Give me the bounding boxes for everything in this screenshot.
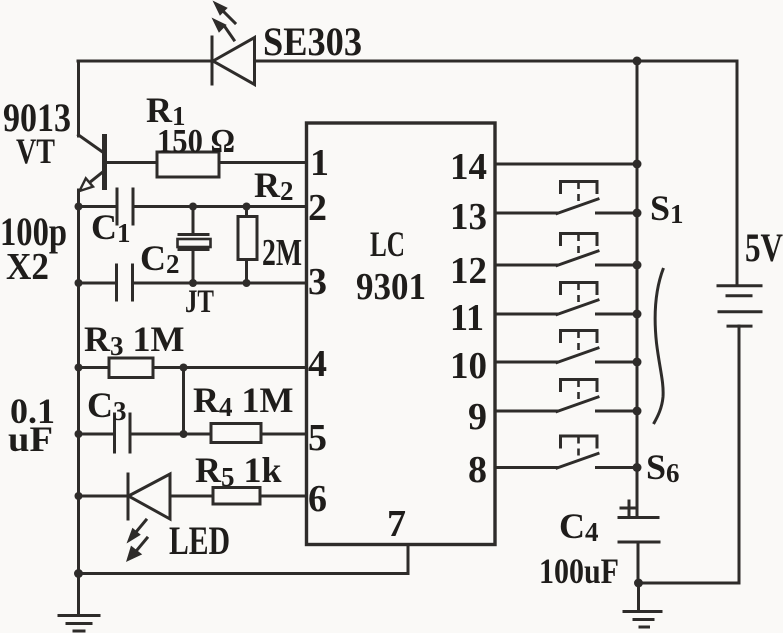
- brace squiggle S1..S6: [654, 268, 664, 424]
- crystal JT: [178, 207, 211, 284]
- svg-text:10: 10: [450, 345, 487, 387]
- node dot left rail pin2 row: [75, 203, 83, 211]
- resistor R2 2M: [238, 207, 257, 284]
- svg-text:VT: VT: [16, 131, 55, 171]
- resistor R3 1M: [78, 358, 307, 378]
- node dot rail S4: [633, 358, 642, 367]
- wire top rail left segment: [78, 60, 212, 63]
- svg-text:9301: 9301: [356, 266, 426, 308]
- svg-text:5V: 5V: [745, 225, 783, 270]
- wire left rail: [77, 190, 80, 574]
- svg-text:uF: uF: [8, 419, 53, 459]
- wire bottom-right to battery return: [639, 326, 740, 583]
- wire top rail right segment: [255, 60, 738, 63]
- svg-text:9: 9: [468, 396, 487, 438]
- resistor R5 1k: [213, 488, 307, 505]
- svg-text:7: 7: [387, 503, 406, 545]
- ground left: [59, 574, 99, 632]
- switch S1 (pin 13): [495, 182, 634, 214]
- node dot crystal top: [189, 203, 197, 211]
- switch S2 (pin 12): [495, 234, 634, 266]
- svg-text:R5 1k: R5 1k: [195, 450, 282, 492]
- svg-text:2: 2: [308, 187, 327, 229]
- resistor R1 150 ohm: [157, 152, 307, 177]
- node dot left rail pin4 row: [75, 364, 83, 372]
- node dot rail pin14: [633, 160, 642, 169]
- switch S3 (pin 11): [495, 283, 634, 315]
- switch S5 (pin 9): [495, 380, 634, 412]
- svg-text:SE303: SE303: [263, 19, 362, 64]
- capacitor C4 100uF electrolytic: [619, 501, 659, 583]
- node dot left rail pin3 row: [75, 279, 83, 287]
- node dot rail S3: [633, 310, 642, 319]
- node dot rail top: [633, 57, 642, 66]
- capacitor C3: [78, 414, 211, 452]
- capacitor C1: [78, 189, 307, 224]
- LED D1 SE303 infrared emitter: [212, 1, 255, 85]
- node dot R2 bottom: [243, 279, 251, 287]
- svg-text:8: 8: [468, 449, 487, 491]
- node dot rail S2: [633, 261, 642, 270]
- svg-text:4: 4: [308, 343, 327, 385]
- switch S4 (pin 10): [495, 331, 634, 363]
- resistor R4 1M: [211, 424, 307, 443]
- svg-text:12: 12: [450, 250, 487, 292]
- svg-text:100uF: 100uF: [539, 551, 619, 591]
- wire node vertical R3-C3: [182, 368, 185, 435]
- node dot left rail pin5 row: [75, 430, 83, 438]
- IC U1 LC9301: [307, 123, 496, 545]
- battery B1 5V: [718, 61, 761, 326]
- svg-text:2M: 2M: [262, 232, 302, 274]
- LED indicator diode: [78, 474, 213, 562]
- svg-text:JT: JT: [185, 284, 214, 320]
- svg-text:3: 3: [308, 261, 327, 303]
- node dot R2 top: [243, 203, 251, 211]
- svg-text:6: 6: [308, 478, 327, 520]
- node dot bottom-left: [74, 569, 83, 578]
- ground right: [624, 583, 661, 627]
- wire pin7 stub: [407, 545, 410, 574]
- svg-text:X2: X2: [6, 246, 49, 288]
- svg-text:14: 14: [450, 146, 487, 188]
- wire switch common rail: [636, 61, 639, 517]
- capacitor C2: [78, 265, 307, 300]
- svg-text:5: 5: [308, 417, 327, 459]
- svg-text:1: 1: [310, 142, 329, 184]
- node dot rail S5: [633, 407, 642, 416]
- svg-text:150 Ω: 150 Ω: [157, 123, 235, 160]
- wire pin14 to rail: [495, 163, 637, 166]
- wire top-left vertical (collector riser): [77, 61, 80, 136]
- svg-text:R3 1M: R3 1M: [84, 319, 184, 361]
- svg-text:11: 11: [450, 297, 484, 339]
- node dot crystal bottom: [189, 279, 197, 287]
- wire bottom return: [78, 572, 408, 575]
- transistor VT 9013 (NPN): [79, 134, 158, 191]
- svg-text:LED: LED: [169, 518, 230, 563]
- svg-text:13: 13: [450, 196, 487, 238]
- svg-text:R4 1M: R4 1M: [193, 380, 293, 422]
- node dot C3-R4 junction: [180, 430, 188, 438]
- switch S6 (pin 8): [495, 436, 634, 468]
- node dot left rail pin6 row: [75, 492, 83, 500]
- node dot rail S6: [633, 463, 642, 472]
- node dot R3 right: [180, 364, 188, 372]
- svg-text:LC: LC: [370, 224, 405, 264]
- node dot rail S1: [633, 209, 642, 218]
- node dot bottom-right junction: [634, 579, 643, 588]
